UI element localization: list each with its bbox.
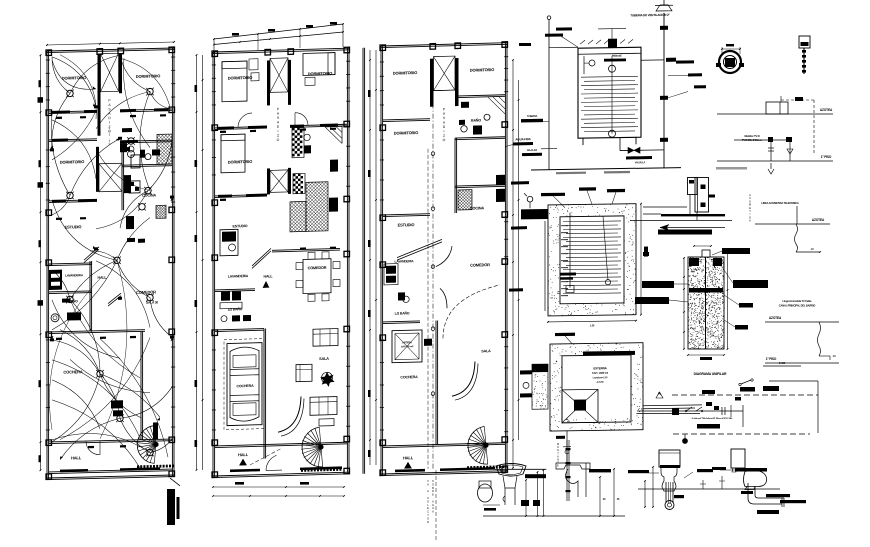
riser diagram 1 piso line [717,160,833,162]
svg-text:AZOTEA: AZOTEA [812,218,825,222]
plan1 switch marks on walls [94,105,98,108]
unifilar meter [672,408,679,415]
lavadero label [589,469,611,472]
plan1 stair xbox mid [96,147,99,192]
plan3 wall estudio [383,214,430,215]
plan1 columns [46,50,52,56]
plan1 closet black blocks [111,400,123,408]
unifilar s-125 dim [763,365,801,367]
plan1 bath fixtures bottom-left [51,314,59,322]
plan1 refrigerator [131,155,140,168]
plan3 diagonal wall [397,239,442,257]
plan3 artesa box [392,330,422,363]
svg-text:AGUA FRIA: AGUA FRIA [515,137,531,141]
water tank body [578,47,641,138]
service arrow line [660,227,725,229]
plan1 kitchen wall [121,165,123,210]
soil column right dim [727,251,729,349]
svg-text:ESTUDIO: ESTUDIO [233,224,248,228]
meter box drop lines [689,195,691,216]
soil column clamp boxes [689,258,699,266]
plan2 jamb marks [220,131,226,133]
svg-text:EXTERNA: EXTERNA [593,366,607,370]
svg-text:A: A [427,489,429,493]
service bottom black bar [658,232,712,235]
svg-text:AZOTEA: AZOTEA [769,316,782,320]
svg-text:A: A [427,482,429,486]
cistern right dim [640,204,642,315]
lavatorio baseline ticks [483,504,500,506]
svg-text:Lavadero=1.00: Lavadero=1.00 [593,376,609,379]
svg-text:DORMITORIO: DORMITORIO [60,159,84,165]
service second line [630,220,732,222]
plan3 plumbing riser dash [432,94,434,469]
cistern plan outer stippled wall [548,204,636,316]
svg-text:O: O [443,138,446,142]
svg-text:SALA: SALA [319,357,329,361]
plan1 comedor top black marks [127,238,135,242]
svg-text:DORMITORIO: DORMITORIO [228,75,252,81]
svg-text:SALA: SALA [481,349,491,353]
telefono drop line [796,206,798,224]
tv antenna box [799,36,810,48]
svg-text:O: O [427,516,429,520]
plan3 agua fria label [513,142,533,146]
soil column left labels [642,281,674,288]
tank water lines [581,75,638,78]
plan2 bath fixtures [304,134,310,141]
svg-text:S: S [432,479,434,483]
svg-text:SALA 30: SALA 30 [146,300,158,304]
plan2 corridor walls [267,60,270,105]
cistern float pipe [569,213,571,288]
plan1 wall closet vertical [140,332,142,440]
svg-text:HALL: HALL [403,455,414,460]
plan2 car in cochera [227,343,262,426]
cistern ladder rungs [561,225,568,227]
plan2 desk estudio [220,229,238,256]
svg-text:HALL: HALL [238,452,249,457]
plan3 wall below bedroom1 [383,119,430,120]
soil column right labels [733,280,768,288]
unifilar breakers [686,407,692,411]
plan1 interior wall bedroom1 [49,111,97,112]
svg-text:1° PISO: 1° PISO [766,357,777,361]
plan2 property line right [362,48,364,474]
plan3 curved pipe wall [440,288,447,308]
plan2 diagonal wall [252,248,271,266]
tank float valve [583,56,585,74]
lavatorio dims [483,515,625,517]
plan2 sala plant [322,372,333,383]
plan3 riser symbols [431,152,435,156]
cistern wall section ladder [544,221,546,311]
tv cable elbow [819,355,830,357]
cistern inner labels [560,273,576,276]
soil column top dim arrows [694,245,711,247]
svg-text:HALL: HALL [98,276,108,280]
dimension string between plan1 and plan2 [196,55,198,470]
inodoro tanque front [659,450,680,510]
plan1 kitchen counter [129,181,140,193]
service main black line [661,214,725,216]
plan1 bath mid fixtures [128,150,135,157]
vent cap [656,5,672,11]
plan1 corridor walls [98,54,101,136]
plan3 hall walls [383,443,505,446]
tank outlet bottom [619,138,621,151]
inodoro dims left [644,481,646,507]
plan2 kitchen checker small [293,174,296,177]
svg-text:O: O [108,129,111,133]
externa tapa pyramid [562,389,598,423]
plan1 wall2 [49,139,97,140]
svg-text:AZOTEA: AZOTEA [820,108,833,112]
plan2 sala sofa2 [310,397,337,416]
electric meter box [688,178,698,195]
plan2 sala table [319,419,334,426]
plan2 bottom dimension lines [213,486,344,488]
svg-text:ESTUDIO: ESTUDIO [398,222,415,227]
plan1 wire arrowheads [92,103,97,108]
cistern labels top [541,193,565,197]
plan1 ceiling lamps [67,90,73,97]
plan3 corridor thick walls [430,59,434,107]
svg-text:REBOSE: REBOSE [612,55,622,58]
cistern bottom dim [548,321,636,322]
plan3 cocina counters [496,189,505,202]
label llega tuberia near plan3 top [519,43,531,46]
tank legs [582,138,584,145]
unifilar ground symbol [684,434,686,439]
plan1 wall3 estudio [49,200,97,201]
plan3 wall vertical mid [435,321,437,445]
plan2 top dimension lines sloped [214,24,343,39]
plan2 shower corner [325,126,342,143]
plan2 kitchen crosshatch big [257,179,425,233]
svg-text:ESTUDIO: ESTUDIO [65,224,82,229]
plan2 cochera dashed bay [224,339,264,430]
plan2 comedor top wall [272,248,340,250]
svg-text:HALL: HALL [264,274,274,278]
svg-text:LAVANDERIA: LAVANDERIA [228,274,249,279]
cistern inlet faucet left [527,196,533,202]
tank top hatch [580,39,633,44]
inodoro baseline [638,488,780,490]
svg-text:LINEA ACOMETIDA TELEFONICA: LINEA ACOMETIDA TELEFONICA [761,201,799,205]
plan2 columns [212,51,218,57]
inodoro right label [697,469,713,472]
lavatorio front detail [496,464,526,506]
plan2 wall at 196 [215,194,267,195]
telefono wavy conduit [795,224,798,252]
lavadero dims [599,477,601,516]
svg-text:CANAL PRINCIPAL DEL BARRIO: CANAL PRINCIPAL DEL BARRIO [779,304,816,308]
tv cable azotea line [765,321,839,323]
ground arrow below [768,163,774,174]
plan2 wall cochera [263,329,265,459]
plan2 sala sofa1 [313,329,338,347]
valve on outlet [628,147,640,153]
connection from cistern lines [643,206,687,208]
svg-text:LAVANDERIA: LAVANDERIA [65,273,84,277]
svg-text:G: G [432,503,434,507]
soil column left dim [683,258,685,349]
plan3 bath fixtures [461,126,467,133]
soil column dark band [689,288,723,293]
svg-text:DORMITORIO: DORMITORIO [470,67,494,73]
plan2 curved stair wall [278,397,301,433]
plan3 sala curved stair [452,362,475,397]
cistern tapa hatch left [521,209,548,219]
soil column electrode [705,251,707,349]
dimension string between plan2 and plan3 [369,50,371,465]
svg-text:TUBERIA: TUBERIA [527,114,538,118]
plan1 hall walls [49,439,172,442]
plan1 feeder thick bar [167,489,175,525]
plan2 sala armchair [296,364,312,381]
svg-text:DIAGRAMA UNIFILAR: DIAGRAMA UNIFILAR [694,372,727,376]
plan2 stair xbox mid [267,168,270,194]
svg-text:DORMITORIO: DORMITORIO [308,71,332,77]
plan3 stair shaft [434,56,456,91]
plan1 window ticks right wall [171,56,175,58]
svg-text:A=0.50: A=0.50 [597,381,605,384]
inodoro side labels [766,494,790,497]
inodoro side seat line [720,469,748,471]
svg-text:A: A [432,510,434,514]
svg-text:C: C [427,510,429,514]
plan1 spiral stair [137,426,154,464]
plan1 window ticks left wall [46,59,50,61]
svg-text:U: U [432,506,434,510]
svg-text:Llega Acometida TV Cable: Llega Acometida TV Cable [783,299,813,303]
riser dashed drop [813,100,815,155]
svg-text:COMEDOR: COMEDOR [308,266,327,271]
plan2 kitchen counters black [329,198,338,212]
externa left pipe section [532,364,548,372]
left pipe label bottom [522,153,542,156]
plan1 top dimension line [47,42,174,45]
plan3 spiral stair [468,426,488,464]
plan3 window ticks [380,61,384,63]
svg-text:DORMITORIO: DORMITORIO [394,130,418,136]
lavatorio counter line [495,468,547,470]
plan3 half bath [403,296,409,303]
svg-text:R: R [427,520,429,524]
plan3 bath walls [455,95,505,96]
plan1 bath fixtures top [120,143,127,152]
riser box on azotea [766,102,788,114]
plan1 outlet marks with leaders [56,117,62,119]
plan2 hall bottom [215,442,347,446]
unifilar right side [817,381,819,433]
telefono azotea line [755,223,830,225]
tv cable conduit [818,322,821,356]
unifilar right vertical [742,405,744,427]
right fitting labels [688,73,702,76]
puesta a tierra soil column [688,257,724,349]
svg-text:VALVULA: VALVULA [635,161,646,164]
svg-text:CAP 160 m3: CAP 160 m3 [401,345,414,348]
plan1 wall comedor [49,330,145,332]
svg-text:O: O [432,482,434,486]
plan2 bedroom2 bed [303,53,335,76]
svg-text:E: E [432,493,434,497]
plan2 entry door arcs bottom [266,455,277,470]
tank detail left supply pipe [548,20,550,170]
plan1 stair shaft [101,53,119,91]
unifilar top switch [741,380,751,384]
plan1 left dimension line [40,55,42,470]
unifilar main wire [637,410,743,412]
svg-text:CAP= 1680 m3: CAP= 1680 m3 [592,371,609,375]
svg-text:COCHERA: COCHERA [236,384,254,388]
soil column bottom dim [688,354,724,356]
plan1 bath mid walls [122,164,172,165]
externa bottom pipe [566,431,568,467]
soil column top right label [722,248,750,254]
vent pipe right [663,13,665,168]
toilet plan small [478,484,493,502]
plan3 cocina walls [455,185,505,186]
tv cable piso line [765,362,839,364]
inodoro side drain pipe [741,483,784,514]
lavadero side detail [556,463,590,497]
riser diagram 1 azotea line [717,113,833,115]
plan2 lavanderia [215,289,255,290]
svg-text:A: A [432,499,434,503]
externa right connection [643,404,702,407]
tank overflow to vent [641,59,664,61]
plan3 comedor curve top [436,246,452,266]
plan3 outer walls [381,43,507,46]
svg-text:1/2 BAÑO: 1/2 BAÑO [228,306,243,311]
plan3 pipe labels right [511,181,529,184]
svg-text:LAVANDERIA: LAVANDERIA [395,259,415,264]
svg-text:V: V [427,479,429,483]
plan1 wiring arcs [52,56,96,108]
svg-text:C: C [427,496,429,500]
svg-text:1.30: 1.30 [590,323,595,327]
plan1 kitchen black counters [124,175,131,193]
plan2 spiral stair [302,427,323,467]
svg-text:2-1x6mm2 TW+1x6mm2/T 25mm Ø PV: 2-1x6mm2 TW+1x6mm2/T 25mm Ø PVC SEL [692,418,733,420]
ground line under tank [531,168,681,170]
plan1 counter hatch [143,205,190,219]
plan2 bottom entry marks [230,469,260,472]
tank label rebose [604,58,626,61]
vertical riser pipe with text [566,440,568,501]
inodoro side view [731,449,767,490]
svg-text:B: B [432,486,434,490]
svg-text:O: O [427,499,429,503]
svg-text:HALL: HALL [71,455,82,460]
svg-text:1° PISO: 1° PISO [821,155,832,159]
plan2 door arcs corridor [238,113,252,127]
tank detail labels left [521,119,543,123]
plan2 interior walls [215,126,267,127]
medidor circuit [734,139,791,141]
plan1 dashed wires [49,279,100,430]
svg-text:TUBERIA DE VENTILACION 2″: TUBERIA DE VENTILACION 2″ [630,13,670,18]
plan2 stair shaft [270,58,288,93]
svg-text:E: E [427,506,429,510]
svg-text:R: R [432,489,434,493]
plan2 bedroom1 bed [222,61,247,102]
svg-text:DORMITORIO: DORMITORIO [136,73,160,79]
unifilar dashed box bottom [673,433,810,435]
electric pump motor plan [716,44,744,73]
grey bar below [716,167,747,170]
svg-text:O: O [277,138,280,142]
plan1 meter drop line [170,478,180,486]
svg-text:ARTESA: ARTESA [402,340,412,344]
svg-text:A: A [749,219,751,223]
svg-text:BAÑO: BAÑO [471,117,481,122]
plan2 window ticks [212,64,216,66]
plan2 comedor table [303,259,331,294]
svg-text:BAJA 3/4: BAJA 3/4 [527,149,537,152]
plan2 bath checker floor [292,128,295,131]
plan1 first-floor electrical plan outer walls [47,48,174,51]
plan1 bath walls bottom-left [49,291,92,292]
plan3 bottom entry [395,469,425,472]
plan3 right dimension string [512,60,514,468]
svg-text:L/2 BAÑO: L/2 BAÑO [395,310,410,315]
plan2 outer walls [213,48,349,52]
plan1 washer block [49,270,62,290]
unifilar label bar [702,390,715,394]
plan1 diagonal walls hall [84,247,99,260]
svg-text:DORMITORIO: DORMITORIO [228,159,252,165]
svg-text:Medidor TV Ø: Medidor TV Ø [744,134,759,138]
plan3 columns [380,45,386,51]
service bar thick [658,230,712,234]
plan2 bedroom3 [221,134,245,173]
cistern water lines [563,220,621,223]
svg-text:COCHERA: COCHERA [400,375,418,379]
externa tank outer stippled wall [550,343,643,431]
svg-text:DORMITORIO: DORMITORIO [393,70,417,76]
tank inlet pipe top [549,46,578,48]
unifilar bottom bar [697,424,720,429]
plan1 hall door arcs [86,441,100,455]
externa labels top [555,333,575,336]
unifilar dashed box top [672,394,818,396]
svg-text:COMEDOR: COMEDOR [470,262,490,268]
plan1 closet hatch top-right [127,133,232,165]
plan1 bottom entry marks [60,469,88,472]
